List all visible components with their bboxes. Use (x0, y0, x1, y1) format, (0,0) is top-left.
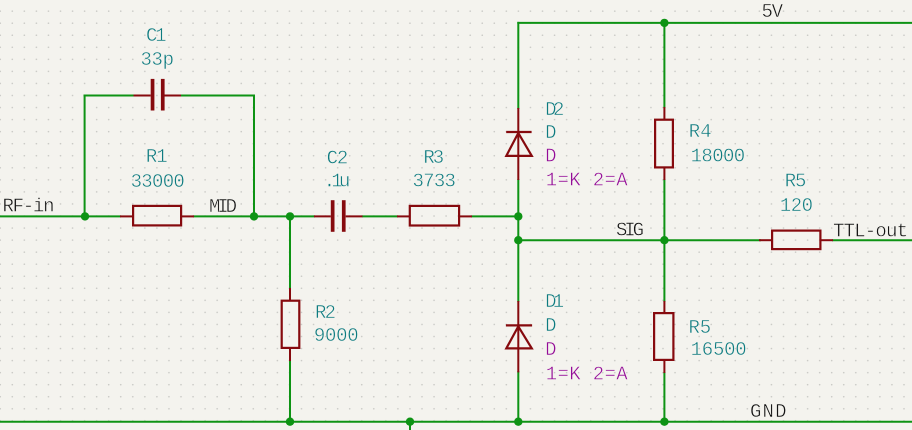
diode D2 (506, 108, 532, 180)
svg-text:TTL-out: TTL-out (833, 221, 908, 243)
junction at 5V rail / R4 branch (660, 19, 668, 27)
svg-text:C2: C2 (327, 148, 349, 170)
resistor R1 (120, 206, 194, 226)
svg-text:D2: D2 (545, 99, 564, 121)
resistor R4 (655, 107, 673, 180)
svg-text:1=K 2=A: 1=K 2=A (546, 170, 628, 192)
wire: C1 loop right vertical (253, 95, 255, 218)
svg-text:MID: MID (209, 196, 237, 218)
svg-text:SIG: SIG (616, 220, 644, 242)
svg-text:R1: R1 (146, 146, 168, 168)
wire: R1 right pin to C2 left pin (193, 215, 315, 217)
svg-text:18000: 18000 (691, 145, 746, 167)
wire: SIG horizontal from diode column to R5 left pin (518, 239, 761, 241)
svg-text:9000: 9000 (314, 325, 359, 347)
capacitor C2 (314, 200, 363, 232)
wire: R5 16500 bottom to GND rail (663, 372, 665, 422)
svg-text:D: D (545, 122, 556, 144)
svg-text:3733: 3733 (413, 171, 456, 193)
wire: C2 right pin to R3 left pin (362, 215, 398, 217)
svg-text:.1u: .1u (324, 171, 351, 193)
junction at GND rail / R2 (286, 418, 294, 426)
wire: R2 branch vertical lower to GND rail (289, 360, 291, 422)
junction at C1 right / MID node (250, 212, 258, 220)
wire: diode column top (5V rail down to D2) (517, 22, 519, 109)
svg-text:R4: R4 (689, 121, 712, 143)
svg-text:1=K 2=A: 1=K 2=A (546, 364, 628, 386)
svg-text:D: D (545, 315, 556, 337)
wire: GND stub going down at x=410 (409, 422, 411, 430)
wire: R5 16500 top from SIG wire (663, 240, 665, 302)
wire: R5 right pin to TTL-out edge (832, 239, 912, 241)
svg-text:C1: C1 (146, 25, 167, 47)
svg-text:120: 120 (780, 195, 813, 217)
wire: GND rail horizontal (0, 421, 912, 423)
junction at GND rail / R5 column (660, 418, 668, 426)
resistor R2 (282, 288, 300, 361)
wire: R4 bottom to SIG wire (663, 179, 665, 240)
wire: C1 loop top left horizontal (84, 95, 135, 97)
svg-text:D: D (545, 145, 556, 167)
wire: RF-in horizontal segment to R1 left pin (0, 215, 121, 217)
wire: R2 branch vertical upper (289, 216, 291, 289)
wire: R3 right pin to diode column (471, 215, 518, 217)
svg-text:R5: R5 (689, 317, 712, 339)
wire: C1 loop left vertical (84, 96, 86, 218)
junction at RF-in / C1 / R1 node (81, 212, 89, 220)
svg-text:5V: 5V (762, 1, 784, 23)
wire: C1 loop top right horizontal (181, 95, 255, 97)
junction at SIG / R4 / R5 column (660, 236, 668, 244)
capacitor C1 (134, 79, 182, 111)
diode D1 (506, 301, 532, 372)
wire: R4 branch from 5V rail (663, 23, 665, 108)
junction at R3 output / diode column (514, 212, 522, 220)
wire: diode column bottom (D1 to GND rail) (517, 371, 519, 422)
junction at SIG / diode column (514, 236, 522, 244)
junction at GND rail / stub (406, 418, 414, 426)
svg-text:33p: 33p (141, 49, 175, 71)
svg-text:R3: R3 (423, 147, 444, 169)
svg-text:R5: R5 (785, 171, 807, 193)
junction at GND rail / diode column (514, 418, 522, 426)
svg-text:16500: 16500 (691, 339, 747, 361)
svg-text:D1: D1 (545, 291, 564, 313)
wire: 5V rail horizontal (517, 22, 912, 24)
svg-text:33000: 33000 (131, 171, 185, 193)
svg-text:R2: R2 (315, 302, 336, 324)
resistor R5 (16500) (654, 301, 673, 373)
wire: diode column middle (D2 to D1 through node) (517, 179, 519, 302)
svg-text:GND: GND (750, 401, 787, 423)
resistor R5 (120) (759, 231, 833, 250)
svg-text:D: D (545, 339, 556, 361)
junction at MID / R2 branch (286, 212, 294, 220)
resistor R3 (397, 206, 472, 226)
svg-text:RF-in: RF-in (3, 196, 55, 218)
